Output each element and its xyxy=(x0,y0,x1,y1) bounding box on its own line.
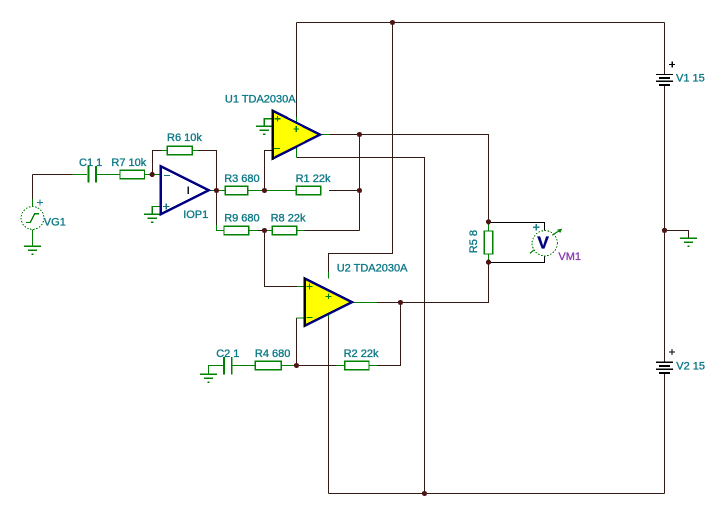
svg-text:R2 22k: R2 22k xyxy=(344,348,379,360)
svg-text:R4 680: R4 680 xyxy=(255,348,290,360)
svg-text:R5 8: R5 8 xyxy=(468,230,480,253)
svg-text:V1 15: V1 15 xyxy=(676,73,705,85)
svg-text:U2 TDA2030A: U2 TDA2030A xyxy=(337,263,408,275)
svg-text:C2 1: C2 1 xyxy=(216,348,239,360)
svg-text:IOP1: IOP1 xyxy=(183,209,208,221)
svg-text:V2 15: V2 15 xyxy=(676,361,705,373)
svg-text:R9 680: R9 680 xyxy=(224,213,259,225)
svg-text:R3 680: R3 680 xyxy=(224,173,259,185)
svg-text:R7 10k: R7 10k xyxy=(111,157,146,169)
svg-text:R1 22k: R1 22k xyxy=(296,173,331,185)
svg-text:R8 22k: R8 22k xyxy=(271,213,306,225)
svg-text:VM1: VM1 xyxy=(558,251,581,263)
svg-text:V: V xyxy=(537,232,549,252)
svg-text:R6 10k: R6 10k xyxy=(167,132,202,144)
svg-text:C1 1: C1 1 xyxy=(79,157,102,169)
svg-text:U1 TDA2030A: U1 TDA2030A xyxy=(225,93,296,105)
svg-text:VG1: VG1 xyxy=(44,217,66,229)
